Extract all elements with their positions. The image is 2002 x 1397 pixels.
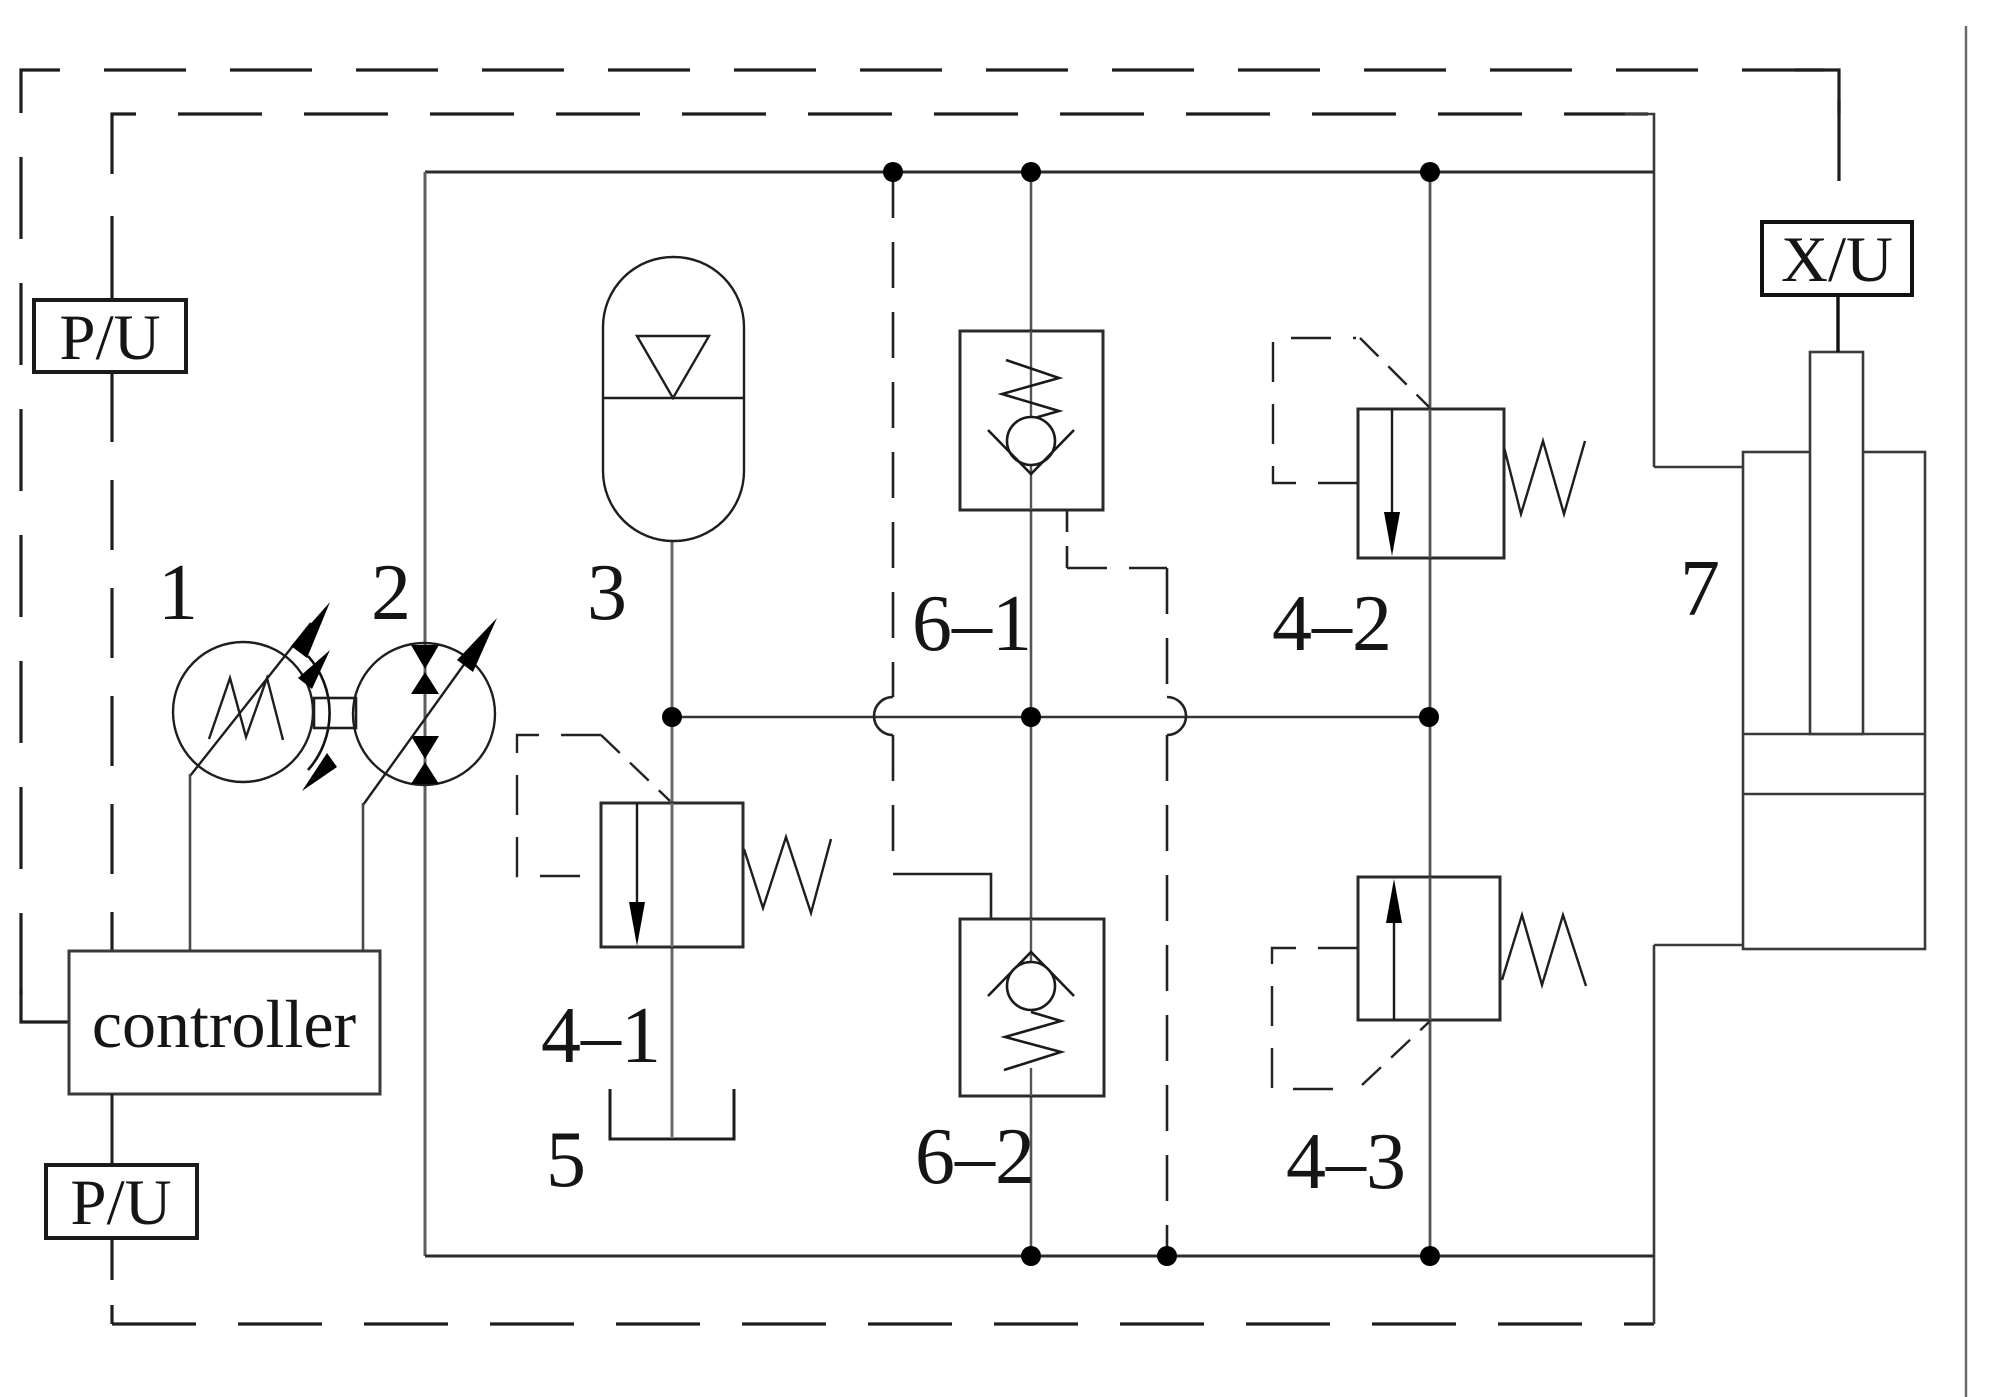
controller box	[69, 951, 380, 1094]
accumulator 3 capsule	[603, 257, 744, 541]
6-1 poppet ball	[1007, 417, 1055, 465]
pump bottom hourglass triangles	[411, 736, 439, 759]
6-2 seat	[988, 952, 1074, 996]
svg-text:1: 1	[158, 549, 198, 637]
P/U box bottom	[46, 1165, 197, 1239]
junction dot: middle bus / valve column x=1429	[1419, 707, 1439, 727]
valve 4-2 pilot dashed box	[1273, 338, 1429, 483]
valve 4-1 pilot dashed box	[517, 735, 670, 876]
P/U box top	[34, 300, 186, 374]
X/U box	[1762, 222, 1912, 296]
svg-text:controller: controller	[92, 986, 357, 1062]
motor M1 circle	[173, 642, 313, 782]
wire: valve 4-1 to tank	[671, 947, 674, 1137]
svg-text:5: 5	[546, 1116, 586, 1204]
junction dot: bottom bus / valve column x=1430	[1420, 1246, 1440, 1266]
cylinder rod	[1810, 352, 1863, 734]
junction dot: bottom bus / check-valve column x=1031	[1021, 1246, 1041, 1266]
6-1 seat	[988, 430, 1074, 474]
valve 4-3 spring	[1502, 915, 1586, 986]
wire: bottom bus	[425, 1255, 1654, 1258]
6-1 spring	[1002, 360, 1059, 419]
svg-text:P/U: P/U	[70, 1167, 171, 1239]
svg-text:4–3: 4–3	[1286, 1118, 1406, 1206]
junction dot: top bus / check-valve column x=1031	[1021, 162, 1041, 182]
motor M zigzag	[209, 678, 283, 740]
valve 4-2 spring	[1504, 441, 1585, 514]
pump control arrow (from controller through circle)	[363, 618, 497, 805]
pump wire to controller	[362, 803, 365, 951]
valve 4-3 body	[1358, 877, 1500, 1020]
wire: left vertical bus x=425	[424, 172, 427, 1256]
pump P2 circle	[353, 643, 495, 785]
svg-text:6–2: 6–2	[915, 1113, 1035, 1201]
check valve 6-2	[960, 919, 1104, 1096]
check valve 6-1	[960, 331, 1103, 510]
outer dashed enclosure	[21, 70, 1839, 1022]
svg-text:2: 2	[371, 549, 411, 637]
wire: top bus	[425, 171, 1654, 174]
svg-text:6–1: 6–1	[912, 580, 1032, 668]
tank 5	[610, 1089, 734, 1139]
motor rotation curved arrow	[308, 656, 330, 770]
wire controller to P/U bottom	[111, 1094, 114, 1165]
figure right border line	[1965, 26, 1968, 1397]
pump top hourglass triangles	[411, 645, 439, 669]
wire: inner-right vertical (to cylinder top port)	[1625, 114, 1654, 467]
svg-text:4–1: 4–1	[541, 992, 661, 1080]
svg-text:4–2: 4–2	[1272, 580, 1392, 668]
shaft coupling between motor and pump	[314, 698, 356, 728]
6-2 poppet ball	[1007, 962, 1055, 1010]
cylinder piston	[1743, 733, 1925, 736]
valve 4-1 body	[601, 803, 743, 947]
wire: valve column x=1430	[1429, 172, 1432, 1256]
rod stem to X/U	[1836, 295, 1839, 352]
accumulator gas triangle	[637, 336, 709, 398]
valve 4-2 body	[1358, 409, 1504, 558]
svg-text:3: 3	[587, 549, 627, 637]
wire: check-valve column x=1031	[1030, 172, 1033, 1256]
pilot dashed line from 6-1 bottom to x=1167 and down with hop	[1067, 510, 1186, 1256]
junction dot: top bus / valve column x=1430	[1420, 162, 1440, 182]
wire: middle bus	[672, 716, 1429, 719]
valve 4-1 spring	[744, 837, 831, 913]
junction dot: middle bus / accumulator column x=672	[662, 707, 682, 727]
junction dot: bottom bus / pilot line x=1167	[1157, 1246, 1177, 1266]
junction dot: top bus / pilot line x=893	[883, 162, 903, 182]
pilot dashed line from top bus (x=893) with hop over middle bus	[874, 172, 991, 919]
wire: accumulator drop x=672	[671, 541, 674, 803]
motor wire to controller	[189, 774, 192, 951]
valve 4-3 pilot dashed box	[1272, 948, 1429, 1089]
svg-text:P/U: P/U	[59, 302, 160, 374]
6-2 spring	[1004, 1012, 1061, 1070]
junction dot: middle bus / check-valve column x=1031	[1021, 707, 1041, 727]
cylinder 7 body	[1743, 452, 1925, 949]
motor control arrow (from controller through circle)	[190, 602, 330, 776]
wire: inner-right vertical lower (cylinder bottom port to dashed corner)	[1653, 945, 1656, 1324]
svg-text:7: 7	[1680, 545, 1720, 633]
accumulator gas/fluid divider	[603, 397, 744, 399]
inner dashed enclosure	[112, 114, 1654, 1324]
cylinder 7 port wires	[1654, 466, 1746, 469]
svg-text:X/U: X/U	[1781, 224, 1893, 296]
